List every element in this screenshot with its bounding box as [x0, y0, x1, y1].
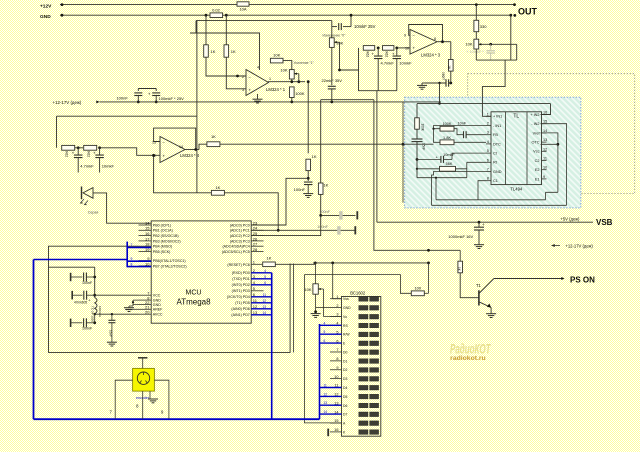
capacitor 100nF rail — [134, 92, 142, 94]
terminal thermistor b — [354, 226, 356, 234]
ground 1000mkF — [474, 244, 484, 246]
wire decoupling chain top — [49, 267, 95, 297]
wire encoder pin9 — [154, 380, 169, 419]
svg-text:24: 24 — [253, 226, 258, 231]
svg-text:(AIN0) PD6: (AIN0) PD6 — [231, 307, 249, 311]
svg-text:100nF: 100nF — [294, 187, 306, 192]
wire +12V rail — [60, 4, 515, 6]
ground 10nF avcc — [107, 341, 117, 343]
trimmer contrast wiper — [318, 288, 323, 290]
resistor 10K feedback — [270, 58, 283, 63]
trimmer 10K gain — [289, 70, 294, 79]
IC U3 left pins 1-8 — [486, 115, 491, 117]
resistor 1K b — [224, 45, 229, 57]
svg-text:100: 100 — [414, 286, 421, 291]
svg-text:(RXD) PD0: (RXD) PD0 — [232, 271, 250, 275]
svg-text:TL494: TL494 — [510, 186, 523, 191]
svg-text:LM324 * 1: LM324 * 1 — [266, 87, 286, 92]
svg-text:RS: RS — [343, 324, 348, 328]
junction out wiper — [489, 43, 492, 46]
wire psdrv drop — [459, 250, 461, 261]
bus blue LCD vertical — [319, 324, 321, 419]
svg-text:6: 6 — [324, 339, 326, 343]
capacitor 100mkF rail — [152, 92, 160, 94]
svg-text:10mkF 25V: 10mkF 25V — [354, 24, 376, 29]
ground encoder — [149, 391, 151, 399]
resistor 0.02 shunt — [210, 13, 223, 18]
junction op4 in lower — [152, 154, 155, 157]
junction sense top — [307, 80, 310, 83]
svg-text:7: 7 — [131, 243, 133, 247]
svg-text:10K: 10K — [304, 287, 311, 292]
svg-text:C2: C2 — [535, 159, 540, 163]
arrow +12-17V — [96, 100, 99, 103]
svg-text:12: 12 — [324, 392, 328, 396]
resistor 1K op3 — [449, 60, 454, 72]
svg-text:1K: 1K — [447, 65, 451, 70]
svg-text:14: 14 — [324, 410, 328, 414]
svg-text:10: 10 — [334, 375, 338, 379]
svg-text:VSB: VSB — [596, 218, 613, 227]
ground 100nF sense — [303, 193, 313, 195]
svg-text:5: 5 — [487, 149, 489, 153]
svg-text:9: 9 — [543, 175, 545, 179]
wire +5V dez line — [377, 221, 593, 223]
wire chain lower — [94, 314, 96, 323]
svg-text:8: 8 — [487, 177, 489, 181]
wire LED to PB0 — [93, 193, 151, 223]
ground below op-amp U1.1 — [257, 94, 259, 99]
capacitor 10mkF d — [396, 48, 398, 56]
wire frame right drop — [196, 21, 198, 193]
wire ct net — [452, 153, 486, 159]
junction vref otc — [557, 143, 560, 146]
wire contrast top — [315, 263, 317, 284]
svg-text:10nF: 10nF — [108, 330, 112, 337]
wire op4 output — [185, 149, 199, 151]
wire trimmer feed — [331, 21, 333, 38]
capacitor 10nF fb — [454, 128, 460, 130]
svg-text:Серая: Серая — [88, 211, 99, 215]
wire encoder pin8 — [142, 391, 144, 419]
svg-text:15nF: 15nF — [422, 143, 426, 150]
wire backlight net — [304, 275, 411, 294]
wire op1 out sense drop — [307, 82, 309, 154]
svg-text:10: 10 — [145, 261, 150, 266]
svg-text:+: + — [148, 91, 151, 96]
svg-text:1K: 1K — [211, 49, 216, 54]
wire PS ON line — [494, 278, 564, 280]
svg-text:10mkF: 10mkF — [399, 60, 412, 65]
svg-text:15: 15 — [334, 419, 338, 423]
resistor 1K sense — [306, 159, 311, 170]
svg-text:(ADC5/SCL) PC5: (ADC5/SCL) PC5 — [222, 250, 250, 254]
terminal encoder top — [142, 359, 144, 369]
wire thermistor b net — [251, 229, 355, 231]
capacitor 1000mkF 16V — [478, 222, 480, 227]
svg-text:1-8K: 1-8K — [443, 136, 451, 140]
junction RC d — [395, 47, 398, 50]
wire DTC net — [480, 143, 486, 145]
svg-text:MCU: MCU — [186, 290, 202, 297]
svg-text:GND: GND — [40, 14, 51, 20]
wire encoder pin7 — [115, 380, 132, 419]
svg-text:Vref: Vref — [533, 131, 541, 135]
svg-text:LM324 * 3: LM324 * 3 — [421, 53, 441, 58]
bus blue stub PB4 — [127, 246, 151, 248]
junction +5V lcd feed — [331, 262, 334, 265]
capacitor 22mkF 35V — [328, 85, 336, 87]
MCU port D pins with numbers — [251, 272, 263, 274]
junction op1 inv node — [236, 75, 239, 78]
junction 10mkF on GND rail — [350, 14, 353, 17]
svg-text:9: 9 — [404, 34, 406, 38]
svg-text:2: 2 — [487, 122, 489, 126]
junction 1000mkF — [478, 221, 481, 224]
svg-text:(AIN1) PD7: (AIN1) PD7 — [231, 313, 249, 317]
junction RC b — [98, 146, 101, 149]
junction cap680 node — [449, 82, 452, 85]
resistor K62 a — [62, 145, 75, 150]
resistor 100K fb — [440, 126, 454, 131]
svg-text:100nF: 100nF — [317, 225, 328, 229]
svg-text:D5: D5 — [343, 395, 347, 399]
svg-text:1K: 1K — [267, 255, 272, 260]
wire R330 to trimmer out — [475, 32, 477, 40]
ground MCU — [129, 305, 133, 307]
svg-text:330: 330 — [480, 24, 487, 29]
svg-text:+12V: +12V — [40, 4, 52, 10]
svg-text:1: 1 — [487, 112, 489, 116]
svg-text:OTC: OTC — [531, 141, 539, 145]
svg-text:100nF: 100nF — [116, 96, 128, 101]
ground T1 — [486, 313, 496, 315]
wire AVCC row — [95, 313, 139, 316]
svg-text:C1: C1 — [493, 179, 498, 183]
svg-text:5: 5 — [324, 330, 326, 334]
bus blue LCD stubs — [320, 324, 342, 326]
svg-text:7: 7 — [336, 348, 338, 352]
junction therm a node — [319, 214, 322, 217]
junction chain vcc — [93, 294, 96, 297]
wire PB4 frame loop — [49, 246, 291, 352]
trimmer zero wiper arrow — [334, 41, 339, 43]
resistor 56K tl — [440, 166, 456, 171]
wire GND rail — [60, 14, 511, 16]
svg-text:OUT: OUT — [518, 6, 538, 16]
svg-text:PB5 (SCK): PB5 (SCK) — [153, 250, 171, 254]
svg-text:15: 15 — [145, 226, 150, 231]
svg-text:1K: 1K — [323, 182, 328, 187]
junction GND left — [61, 14, 64, 17]
bus blue stub PB7 — [127, 266, 151, 268]
trimmer 10K contrast — [313, 284, 318, 294]
svg-text:5: 5 — [264, 275, 266, 279]
svg-text:22mkF 35V: 22mkF 35V — [322, 78, 343, 83]
junction DTC sense cross — [427, 249, 430, 252]
capacitor 100nF therm b — [337, 226, 340, 234]
resistor 1K op4 — [207, 142, 220, 147]
svg-text:13: 13 — [324, 401, 328, 405]
wire +5V distribution — [313, 262, 429, 264]
bus blue MCU left vertical — [126, 242, 128, 268]
wire sense to PC0 — [251, 178, 308, 225]
resistor 1K a — [204, 45, 209, 57]
svg-text:16: 16 — [543, 111, 547, 115]
svg-text:100K: 100K — [295, 91, 305, 96]
wire RC to op4 +input — [100, 148, 160, 156]
svg-text:PB3 (MOSI/OC2): PB3 (MOSI/OC2) — [153, 239, 181, 243]
wire 56K wiring — [417, 162, 486, 177]
svg-text:+12-17V (деж): +12-17V (деж) — [565, 244, 593, 249]
capacitor 100nF aref — [70, 319, 72, 327]
IC U3 TL494 body — [491, 112, 542, 185]
arrow PS ON — [561, 277, 564, 280]
junction +12V at 330 — [475, 3, 478, 6]
svg-text:27: 27 — [253, 242, 258, 247]
svg-text:E2: E2 — [535, 168, 540, 172]
resistor 100 backlight — [411, 291, 424, 296]
svg-text:(ADC2) PC2: (ADC2) PC2 — [230, 234, 250, 238]
svg-text:1K: 1K — [231, 49, 236, 54]
svg-text:GND: GND — [153, 303, 161, 307]
svg-text:FB: FB — [493, 133, 498, 137]
svg-text:(ADC4/SDA)PC4: (ADC4/SDA)PC4 — [222, 245, 249, 249]
wire LCD gnd pin2 — [316, 307, 330, 309]
svg-text:4: 4 — [257, 66, 259, 70]
wire AREF stub — [125, 308, 139, 310]
junction chain cap3 — [93, 321, 96, 324]
junction GND OUT end — [509, 14, 512, 17]
wire between K62 ab — [75, 147, 83, 149]
svg-text:GND: GND — [493, 170, 502, 174]
wire from shunt left to R1K-a — [205, 15, 207, 45]
svg-text:9: 9 — [131, 257, 133, 261]
encoder S1 highlight box — [133, 368, 155, 391]
wire out box bottom — [476, 59, 516, 61]
junction cap2 rail — [155, 101, 158, 104]
svg-text:26: 26 — [253, 236, 258, 241]
resistor K62 c — [363, 46, 374, 51]
junction fb PC1 — [277, 229, 280, 232]
wire op4 out net — [220, 143, 434, 145]
encoder S1 symbol — [137, 372, 149, 384]
TL494 highlighted region — [405, 97, 581, 208]
svg-text:К62: К62 — [366, 52, 370, 58]
svg-text:PB2 (SS/OC1B): PB2 (SS/OC1B) — [153, 234, 179, 238]
svg-text:10nF: 10nF — [458, 121, 467, 125]
svg-text:PB4 (MISO): PB4 (MISO) — [153, 245, 172, 249]
svg-text:10: 10 — [405, 46, 409, 50]
op-amp U1.3 LM324 — [410, 30, 437, 55]
svg-text:10: 10 — [543, 166, 547, 170]
svg-text:- IN1: - IN1 — [493, 124, 501, 128]
svg-text:Vcc: Vcc — [533, 150, 539, 154]
wire long top net — [196, 20, 332, 22]
svg-text:AREF: AREF — [153, 308, 163, 312]
resistor 100K to rail — [290, 87, 295, 98]
svg-text:2: 2 — [242, 75, 244, 79]
svg-text:+ IN2: + IN2 — [530, 113, 539, 117]
resistor 100K tl-divider — [416, 104, 418, 118]
MCU U2 ATmega8 body — [151, 221, 251, 323]
wire T1 emitter to ground — [490, 308, 492, 314]
wire VCC row — [95, 294, 139, 296]
wire otc stub — [541, 143, 558, 145]
junction RC c — [377, 47, 380, 50]
junction RC a — [77, 146, 80, 149]
bus blue stub PB6 — [127, 260, 151, 262]
junction +5V right — [427, 262, 430, 265]
terminal bar gray wire — [81, 187, 83, 200]
svg-text:D7: D7 — [343, 413, 347, 417]
wire 1K sense to node — [307, 171, 309, 179]
wire zero divider drop — [359, 70, 397, 222]
wire thermistor a net — [321, 214, 356, 216]
junction avcc 10nF — [111, 313, 113, 315]
capacitor 10mkF b — [99, 148, 101, 155]
svg-text:(INT1) PD3: (INT1) PD3 — [232, 289, 250, 293]
svg-text:D0: D0 — [343, 350, 347, 354]
svg-text:GND: GND — [343, 306, 351, 310]
op-amp U1.1 LM324 — [246, 70, 269, 96]
wire fb to PC1 — [224, 193, 278, 231]
svg-text:10K: 10K — [465, 42, 472, 47]
junction R-shunt right — [225, 14, 228, 17]
wire out wiper drop — [516, 44, 518, 60]
resistor 330 — [474, 20, 479, 31]
junction OUT lower terminal — [513, 14, 516, 17]
wire C1 pin stub — [478, 181, 486, 200]
svg-text:28: 28 — [253, 247, 258, 252]
svg-text:18: 18 — [145, 242, 150, 247]
svg-text:+ 10mkF *: + 10mkF * — [466, 50, 484, 54]
svg-text:(RESET) PC6: (RESET) PC6 — [227, 263, 249, 267]
svg-text:К62: К62 — [87, 151, 91, 157]
svg-text:Vo: Vo — [343, 315, 347, 319]
svg-text:0.02: 0.02 — [212, 8, 221, 13]
wire Vss feed — [333, 263, 342, 299]
resistor 1K op4 fb — [211, 190, 224, 195]
svg-text:К62: К62 — [65, 151, 69, 157]
svg-text:4: 4 — [487, 140, 489, 144]
junction 100K on aux rail — [290, 101, 293, 104]
wire aux vertical a — [293, 264, 295, 353]
svg-text:4: 4 — [264, 269, 266, 273]
IC U3 right pins 9-16 — [542, 114, 547, 116]
svg-text:13: 13 — [543, 138, 547, 142]
wire vref otc link — [541, 133, 558, 192]
wire PC2 to node — [251, 215, 321, 235]
LCD contact pads — [359, 297, 368, 302]
svg-text:PB0 (ICP1): PB0 (ICP1) — [153, 223, 171, 227]
svg-text:R/W: R/W — [343, 333, 350, 337]
svg-text:4.7mkF: 4.7mkF — [381, 60, 395, 65]
MCU port B pins with numbers — [139, 224, 152, 226]
svg-text:1K: 1K — [211, 134, 216, 139]
wire tl bottom rail b — [432, 172, 567, 206]
svg-text:1000mkF 16V: 1000mkF 16V — [448, 234, 473, 239]
capacitor 4.7mkF c — [377, 48, 379, 56]
wire contrast bottom — [315, 294, 317, 312]
junction cap1 rail — [137, 101, 140, 104]
ground cap680 — [422, 82, 425, 84]
svg-text:11: 11 — [324, 384, 328, 388]
svg-text:radiokot.ru: radiokot.ru — [450, 355, 486, 362]
wire +12-17V aux rail — [100, 101, 442, 103]
svg-text:3: 3 — [336, 313, 338, 317]
svg-text:E1: E1 — [535, 177, 540, 181]
svg-text:56K: 56K — [446, 162, 453, 166]
wire R100 to +5V drop — [424, 292, 428, 294]
svg-text:PS ON: PS ON — [570, 275, 595, 284]
svg-text:17: 17 — [145, 236, 150, 241]
wire tl bottom rail a — [436, 178, 558, 200]
wire op1 supply frame — [190, 21, 260, 70]
svg-text:+12-17V (деж): +12-17V (деж) — [53, 100, 82, 105]
svg-text:100mkH: 100mkH — [98, 306, 102, 317]
resistor 1K adc2 — [318, 183, 323, 194]
LCD pins with numbers — [330, 298, 342, 300]
capacitor 10mkF tl — [440, 156, 442, 163]
wire left frame top — [57, 116, 197, 148]
junction zero wiper node — [338, 69, 341, 72]
capacitor u680 — [449, 82, 451, 84]
ground contrast — [311, 313, 321, 315]
svg-text:25: 25 — [253, 231, 258, 236]
wire tl div down — [416, 145, 418, 178]
svg-text:3: 3 — [487, 131, 489, 135]
LED gray — [83, 188, 93, 199]
capacitor 100nF mcu — [70, 273, 72, 281]
junction chain cap1 — [93, 276, 96, 279]
wire drop to bottom rail — [402, 102, 404, 203]
svg-text:(XCK/T0) PD4: (XCK/T0) PD4 — [227, 295, 250, 299]
junction tl 56k node — [416, 168, 418, 170]
trimmer 10K zero — [329, 38, 334, 48]
svg-text:6: 6 — [487, 158, 489, 162]
capacitor 4.7mkF a — [77, 148, 79, 155]
svg-text:10K: 10K — [273, 53, 280, 58]
svg-text:Vss: Vss — [343, 297, 349, 301]
junction aux rail 292 — [330, 101, 333, 104]
svg-text:1K: 1K — [215, 185, 220, 190]
svg-text:47mk605: 47mk605 — [74, 300, 87, 304]
wire -in2 loop — [541, 124, 567, 206]
wire 100K bottom to aux rail — [291, 98, 293, 102]
svg-text:1K: 1K — [312, 154, 317, 159]
svg-text:1: 1 — [336, 295, 338, 299]
op-amp U1.4 LM324 — [160, 137, 185, 163]
svg-text:VCC: VCC — [153, 294, 161, 298]
bus blue bottom — [34, 418, 320, 420]
svg-text:8: 8 — [434, 37, 436, 41]
svg-text:1К: 1К — [457, 267, 461, 271]
svg-text:D3: D3 — [343, 377, 347, 381]
svg-text:PB6(XTAL1/TOSC1): PB6(XTAL1/TOSC1) — [153, 259, 186, 263]
svg-text:Измерение "0": Измерение "0" — [323, 33, 347, 37]
svg-text:14: 14 — [262, 311, 266, 315]
svg-text:AVCC: AVCC — [153, 313, 163, 317]
svg-text:(ADC0) PC0: (ADC0) PC0 — [230, 223, 250, 227]
inductor 100mkH — [95, 298, 97, 314]
LCD X1 body — [342, 297, 381, 437]
svg-text:12: 12 — [543, 147, 547, 151]
resistor 1K reset — [263, 262, 276, 267]
svg-text:2: 2 — [336, 304, 338, 308]
svg-text:+5V (деж): +5V (деж) — [560, 217, 580, 222]
svg-text:D4: D4 — [343, 386, 347, 390]
